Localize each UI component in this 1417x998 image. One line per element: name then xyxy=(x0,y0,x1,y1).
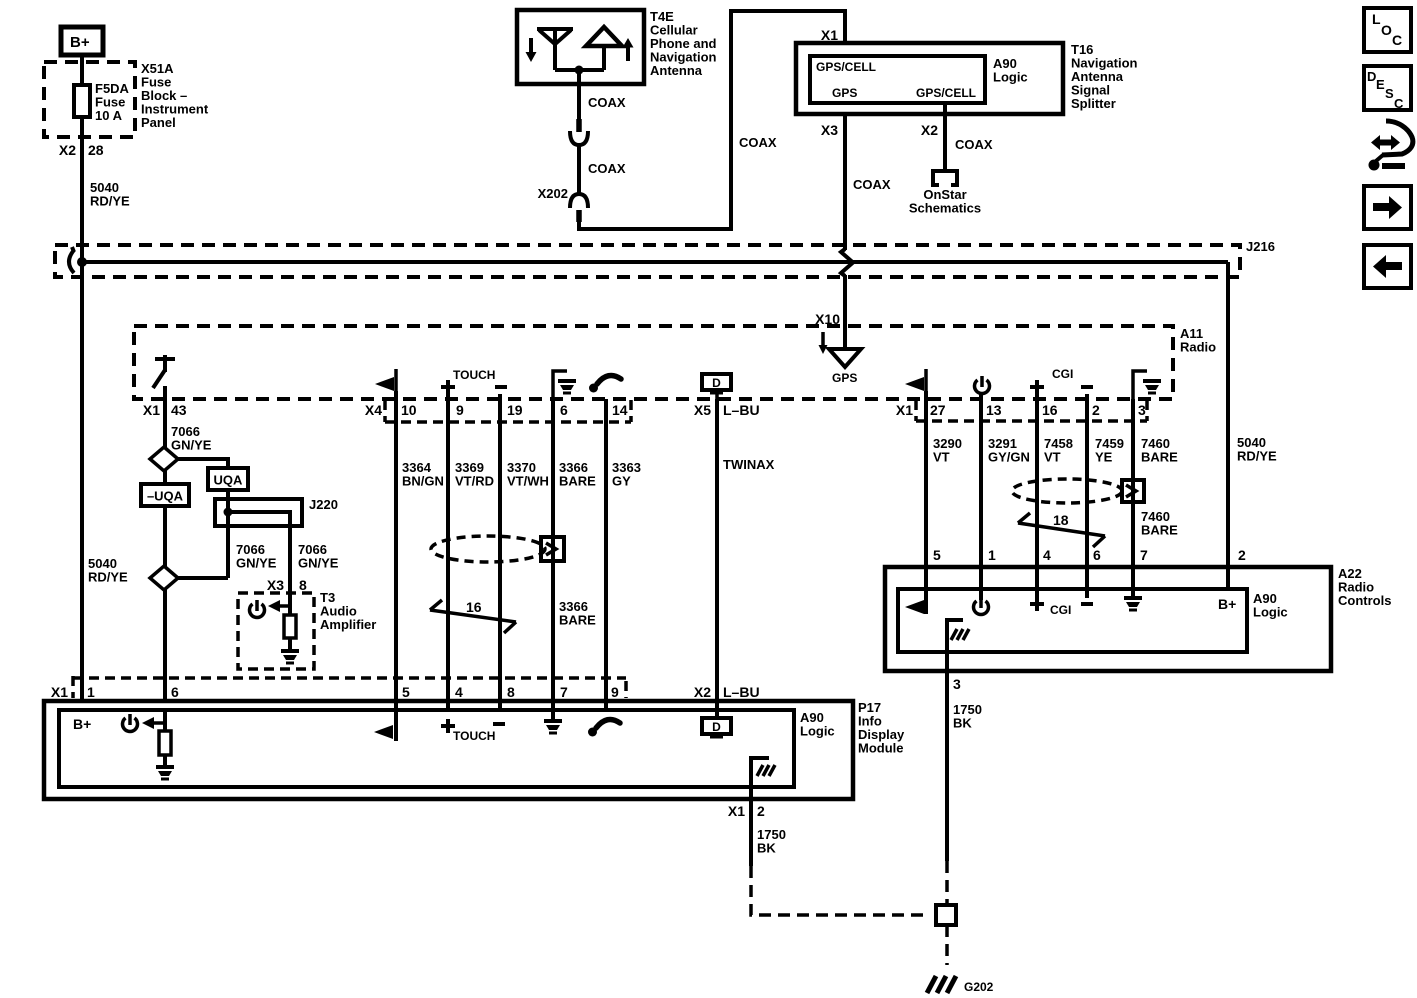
resistor (P17) xyxy=(159,731,171,755)
radio shield ground symbol at pin 6 xyxy=(553,371,576,399)
svg-text:19: 19 xyxy=(507,402,523,418)
CGI + symbol (A22 pin 4) xyxy=(1030,597,1044,611)
wire COAX between connectors xyxy=(577,145,581,194)
svg-text:Radio: Radio xyxy=(1180,340,1216,355)
wire TWINAX X5 to X2 xyxy=(715,399,719,718)
connector half (female) at J216 left end xyxy=(69,250,74,273)
svg-text:UQA: UQA xyxy=(214,473,244,488)
audio-out symbol (A22 pin 5) xyxy=(905,600,924,614)
wire 5040 RD/YE horizontal feed inside J216 xyxy=(82,260,1228,264)
shield ground symbol (P17 pin 7) xyxy=(544,721,562,733)
label T16 Navigation Antenna Signal Splitter xyxy=(1071,42,1138,111)
svg-text:Logic: Logic xyxy=(800,724,835,739)
svg-text:X4: X4 xyxy=(365,402,382,418)
shield ellipse (touch wires) xyxy=(431,536,545,562)
label T4E Cellular Phone and Navigation Antenna xyxy=(650,9,717,78)
antenna common stem and junction xyxy=(555,68,604,72)
label P17 Info Display Module xyxy=(858,700,905,756)
svg-text:GY: GY xyxy=(612,474,631,489)
svg-text:9: 9 xyxy=(456,402,464,418)
pin X5 L-BU labels xyxy=(694,402,760,418)
svg-text:BARE: BARE xyxy=(559,613,596,628)
svg-text:B+: B+ xyxy=(70,34,90,51)
label 1750 BK (P17) xyxy=(757,827,786,856)
svg-text:2: 2 xyxy=(1238,547,1246,563)
wire pin 6 internal (P17) xyxy=(163,710,167,731)
battery B+ symbol xyxy=(61,27,103,55)
connector X1 strip of P17 (dashed) xyxy=(51,676,626,700)
svg-text:D: D xyxy=(712,720,721,734)
radio antenna pin symbol (X1 43) xyxy=(153,355,175,388)
radio A11 dashed box xyxy=(134,326,1173,399)
icon prev-page arrow button xyxy=(1364,245,1411,288)
svg-text:Antenna: Antenna xyxy=(650,63,703,78)
svg-text:YE: YE xyxy=(1095,450,1113,465)
inline connector (male/female pair) xyxy=(570,119,588,145)
svg-text:L–BU: L–BU xyxy=(723,402,760,418)
svg-text:GN/YE: GN/YE xyxy=(298,556,339,571)
svg-text:X1: X1 xyxy=(896,402,913,418)
radio power symbol at pin 13 xyxy=(975,376,990,394)
wire COAX X2 drop xyxy=(943,103,947,169)
svg-text:X1: X1 xyxy=(51,684,68,700)
arrow into power symbol (T3) xyxy=(268,600,291,612)
label 7460 BARE (below shield) xyxy=(1141,509,1178,538)
GPS antenna input arrow (hollow) xyxy=(829,349,861,367)
radio handset symbol at pin 14 xyxy=(589,375,621,392)
label 3363 GY xyxy=(612,460,641,489)
svg-text:O: O xyxy=(1381,22,1392,38)
wire 7066 GN/YE to amplifier xyxy=(288,512,292,615)
label 3290 VT xyxy=(933,436,962,465)
icon next-page arrow button xyxy=(1364,186,1411,229)
svg-text:S: S xyxy=(1385,86,1394,101)
svg-text:VT: VT xyxy=(933,450,950,465)
cellular antenna element xyxy=(537,29,573,70)
wire COAX antenna drop xyxy=(577,70,581,119)
svg-text:18: 18 xyxy=(1053,512,1069,528)
radio touch - symbol at pin 19 xyxy=(495,385,507,389)
wire COAX routing to splitter X1 xyxy=(579,11,845,229)
wire diamond1 to UQA xyxy=(178,459,228,468)
svg-text:L–BU: L–BU xyxy=(723,684,760,700)
wire B+ feed 5040 RD/YE (x=82) xyxy=(80,55,84,701)
svg-text:14: 14 xyxy=(612,402,628,418)
wire 7458 VT (pin16 to pin4) xyxy=(1035,394,1039,611)
power symbol (T3) xyxy=(250,600,265,618)
wire 7460 BARE shield drain (pin3 to pin7) xyxy=(1131,399,1135,597)
svg-text:CGI: CGI xyxy=(1052,367,1073,381)
svg-text:TOUCH: TOUCH xyxy=(453,729,495,743)
svg-text:5: 5 xyxy=(402,684,410,700)
svg-text:GPS: GPS xyxy=(832,371,857,385)
pin X2 L-BU labels (P17) xyxy=(694,684,760,700)
resistor (T3 input) xyxy=(284,615,296,638)
label A90 Logic (P17) xyxy=(800,710,835,739)
svg-text:7: 7 xyxy=(560,684,568,700)
svg-text:6: 6 xyxy=(1093,547,1101,563)
svg-text:16: 16 xyxy=(466,599,482,615)
wire 3369 VT/RD (pin9 to pin4) xyxy=(446,394,450,710)
power symbol (A22 pin 1) xyxy=(974,597,989,615)
wire COAX GPS vertical (x=845) upper part xyxy=(843,114,847,250)
wire 7459 YE (pin2 to pin6) xyxy=(1085,394,1089,598)
wire 3291 GY/GN (pin13 to pin1) xyxy=(979,394,983,600)
svg-text:VT: VT xyxy=(1044,450,1061,465)
svg-text:COAX: COAX xyxy=(739,135,777,150)
svg-text:GPS: GPS xyxy=(832,86,857,100)
svg-text:BARE: BARE xyxy=(1141,450,1178,465)
svg-text:GY/GN: GY/GN xyxy=(988,450,1030,465)
svg-text:6: 6 xyxy=(171,684,179,700)
label 3291 GY/GN xyxy=(988,436,1030,465)
shield ground symbol (A22 pin 7) xyxy=(1124,598,1142,610)
label 5040 RD/YE (right wire) xyxy=(1237,435,1277,464)
CGI - symbol (A22 pin 6) xyxy=(1081,602,1093,606)
chassis ground G202 xyxy=(927,976,956,993)
svg-text:X2: X2 xyxy=(694,684,711,700)
off-page connector to OnStar xyxy=(933,171,957,185)
pin X1 2 labels (P17 bottom) xyxy=(728,803,765,819)
dashed wire 1750 BK from A22 to splice xyxy=(945,861,949,905)
svg-text:Logic: Logic xyxy=(993,70,1028,85)
svg-text:RD/YE: RD/YE xyxy=(90,194,130,209)
touch + symbol (P17 pin 4) xyxy=(441,719,455,733)
splitter T16 inner logic box xyxy=(810,56,985,103)
wire 1750 BK from A22 pin 3 xyxy=(945,652,949,861)
wire 3370 VT/WH (pin19 to pin8) xyxy=(498,394,502,710)
label T3 Audio Amplifier xyxy=(320,590,376,632)
label 7066 GN/YE (left branch) xyxy=(236,542,277,571)
svg-text:COAX: COAX xyxy=(955,137,993,152)
svg-text:8: 8 xyxy=(507,684,515,700)
GPS antenna element xyxy=(586,27,622,70)
touch - symbol (P17 pin 8) xyxy=(493,722,505,726)
label A22 Radio Controls xyxy=(1338,566,1391,608)
svg-text:1: 1 xyxy=(87,684,95,700)
radio shield ground symbol at pin 3 xyxy=(1133,371,1161,399)
label 7459 YE xyxy=(1095,436,1124,465)
ground symbol (T3) xyxy=(281,651,299,663)
svg-text:8: 8 xyxy=(299,577,307,593)
label 5040 RD/YE (mid left wire) xyxy=(88,556,128,585)
svg-text:Amplifier: Amplifier xyxy=(320,617,376,632)
label 3364 BN/GN xyxy=(402,460,444,489)
wire 5040 RD/YE right vertical to A22 (x=1228) xyxy=(1226,262,1230,589)
label 7066 GN/YE (right branch) xyxy=(298,542,339,571)
connector X1 strip (dashed, right) xyxy=(896,400,1147,421)
wire 1750 BK from P17 xyxy=(749,799,753,866)
twisted pair arrow 16 xyxy=(430,599,516,633)
label 3370 VT/WH xyxy=(507,460,549,489)
svg-text:C: C xyxy=(1392,32,1402,48)
splitter T16 outer box xyxy=(796,43,1063,114)
svg-text:TWINAX: TWINAX xyxy=(723,457,775,472)
radio controls A22 inner logic box xyxy=(898,589,1247,652)
display D symbol (P17 X2) xyxy=(702,718,731,737)
wire 7066 GN/YE main (x=165) xyxy=(163,386,167,701)
option diamond 2 xyxy=(150,566,178,590)
option box UQA xyxy=(208,468,248,490)
svg-text:43: 43 xyxy=(171,402,187,418)
label 1750 BK (A22) xyxy=(953,702,982,731)
option box -UQA xyxy=(141,484,189,506)
svg-text:BK: BK xyxy=(757,841,776,856)
radio touch + symbol at pin 9 xyxy=(441,380,455,394)
svg-text:CGI: CGI xyxy=(1050,603,1071,617)
wire resistor to ground (P17) xyxy=(163,755,167,766)
svg-text:GPS/CELL: GPS/CELL xyxy=(916,86,976,100)
svg-text:COAX: COAX xyxy=(588,161,626,176)
handset symbol (P17 pin 9) xyxy=(588,719,620,736)
radio CGI + symbol at pin 16 xyxy=(1030,380,1044,394)
svg-text:J216: J216 xyxy=(1246,239,1275,254)
power symbol (P17) xyxy=(123,714,138,732)
shield ellipse (CGI wires) xyxy=(1012,479,1122,503)
audio-out symbol (P17 pin 5) xyxy=(374,725,393,739)
splice square node xyxy=(936,905,956,925)
inline connector X202 (female/male pair) xyxy=(570,194,588,222)
label 5040 RD/YE (top left wire) xyxy=(90,180,130,209)
svg-text:2: 2 xyxy=(1092,402,1100,418)
radio CGI - symbol at pin 2 xyxy=(1081,385,1093,389)
connector pin pass-through at J216 (chevron) xyxy=(841,249,853,276)
wire 3363 GY (pin14 to pin9) xyxy=(604,399,608,710)
svg-text:X202: X202 xyxy=(538,186,568,201)
svg-text:X10: X10 xyxy=(815,311,840,327)
svg-text:GN/YE: GN/YE xyxy=(171,438,212,453)
svg-text:RD/YE: RD/YE xyxy=(1237,449,1277,464)
wire 3364 BN/GN (pin10 to pin5) xyxy=(394,391,398,741)
svg-text:1: 1 xyxy=(988,547,996,563)
wire 3366 BARE shield drain (pin6 to pin7) xyxy=(551,399,555,719)
svg-text:D: D xyxy=(1367,69,1376,84)
twisted pair arrow 18 xyxy=(1018,512,1105,547)
svg-text:B+: B+ xyxy=(73,716,91,732)
chassis ground hook (P17 internal) xyxy=(751,758,775,799)
svg-text:GN/YE: GN/YE xyxy=(236,556,277,571)
up arrow (GPS) xyxy=(623,38,634,61)
svg-text:J220: J220 xyxy=(309,497,338,512)
info display module P17 inner logic box xyxy=(59,710,794,787)
svg-text:16: 16 xyxy=(1042,402,1058,418)
pin X3 8 labels (amplifier) xyxy=(267,577,307,593)
svg-text:B+: B+ xyxy=(1218,596,1236,612)
svg-text:Controls: Controls xyxy=(1338,593,1391,608)
label 3366 BARE xyxy=(559,460,596,489)
shield drain connector square (right) xyxy=(1122,480,1144,502)
svg-text:9: 9 xyxy=(611,684,619,700)
svg-text:COAX: COAX xyxy=(588,95,626,110)
label A11 Radio xyxy=(1180,326,1216,355)
wire resistor to ground xyxy=(288,638,292,650)
ground symbol (P17) xyxy=(156,767,174,779)
dashed wire splice to G202 xyxy=(945,925,949,965)
svg-text:10: 10 xyxy=(401,402,417,418)
svg-text:28: 28 xyxy=(88,142,104,158)
arrow into power symbol (P17 pin 6) xyxy=(142,717,165,729)
svg-text:X1: X1 xyxy=(143,402,160,418)
wire COAX GPS vertical to radio X10 xyxy=(843,275,847,352)
dashed wire 1750 BK from P17 to splice xyxy=(751,866,930,915)
icon LOC button xyxy=(1364,8,1411,52)
svg-text:GPS/CELL: GPS/CELL xyxy=(816,60,876,74)
svg-text:D: D xyxy=(712,376,721,390)
shield drain connector square xyxy=(541,537,564,561)
svg-text:Module: Module xyxy=(858,741,904,756)
svg-text:Schematics: Schematics xyxy=(909,201,981,216)
svg-text:Splitter: Splitter xyxy=(1071,96,1116,111)
svg-text:Panel: Panel xyxy=(141,115,176,130)
svg-text:VT/RD: VT/RD xyxy=(455,474,494,489)
wire 3290 VT (pin27 to pin5) xyxy=(924,391,928,614)
wire UQA to J220 xyxy=(226,490,230,578)
label 7066 GN/YE (top) xyxy=(171,424,212,453)
svg-text:BARE: BARE xyxy=(559,474,596,489)
svg-text:BN/GN: BN/GN xyxy=(402,474,444,489)
option diamond 1 xyxy=(150,447,178,471)
svg-text:2: 2 xyxy=(757,803,765,819)
label X51A Fuse Block - Instrument Panel xyxy=(141,61,209,130)
label 3366 BARE (below shield) xyxy=(559,599,596,628)
radio controls A22 outer box xyxy=(885,567,1331,671)
label 7460 BARE xyxy=(1141,436,1178,465)
svg-text:–UQA: –UQA xyxy=(147,489,184,504)
harness connector J216 dashed box xyxy=(55,245,1240,277)
svg-text:X1: X1 xyxy=(821,27,838,43)
chassis ground hook (A22 internal) xyxy=(947,620,969,652)
splice pack J220 xyxy=(215,499,302,526)
icon DESC button xyxy=(1364,66,1411,111)
pin X1 43 labels xyxy=(143,402,187,418)
junction node at B+ wire and J216 feed xyxy=(77,257,87,267)
down arrow (cellular receive) xyxy=(526,38,537,62)
svg-text:3: 3 xyxy=(953,676,961,692)
svg-text:13: 13 xyxy=(986,402,1002,418)
svg-text:L: L xyxy=(1372,11,1381,27)
svg-text:E: E xyxy=(1376,77,1385,92)
label A90 Logic (splitter) xyxy=(993,56,1028,85)
fuse F5DA 10A xyxy=(74,85,90,117)
svg-text:4: 4 xyxy=(1043,547,1051,563)
svg-text:4: 4 xyxy=(455,684,463,700)
radio display D symbol at X5 xyxy=(702,374,731,399)
fuse block X51A dashed box xyxy=(44,62,135,137)
svg-text:X3: X3 xyxy=(267,577,284,593)
svg-text:5: 5 xyxy=(933,547,941,563)
svg-text:X1: X1 xyxy=(728,803,745,819)
audio amplifier T3 dashed box xyxy=(238,593,314,669)
svg-text:RD/YE: RD/YE xyxy=(88,570,128,585)
info display module P17 outer box xyxy=(44,701,853,799)
wire diamond2 to J220 branch xyxy=(178,576,228,580)
label F5DA Fuse 10 A xyxy=(95,81,130,123)
icon route arrows xyxy=(1369,121,1413,171)
svg-text:X5: X5 xyxy=(694,402,711,418)
connector X4 strip (dashed) xyxy=(365,400,631,422)
radio audio-out symbol at pin 27 xyxy=(905,369,926,391)
svg-text:X2: X2 xyxy=(921,122,938,138)
label 7458 VT xyxy=(1044,436,1073,465)
pin X2 28 of fuse block xyxy=(59,142,104,158)
svg-text:G202: G202 xyxy=(964,980,994,994)
svg-text:27: 27 xyxy=(930,402,946,418)
svg-text:COAX: COAX xyxy=(853,177,891,192)
antenna T4E box xyxy=(517,10,644,84)
svg-text:3: 3 xyxy=(1138,402,1146,418)
svg-text:Logic: Logic xyxy=(1253,605,1288,620)
svg-text:TOUCH: TOUCH xyxy=(453,368,495,382)
svg-text:6: 6 xyxy=(560,402,568,418)
label OnStar Schematics xyxy=(909,187,981,216)
svg-text:VT/WH: VT/WH xyxy=(507,474,549,489)
label A90 Logic (A22) xyxy=(1253,591,1288,620)
svg-text:10 A: 10 A xyxy=(95,108,123,123)
svg-text:BK: BK xyxy=(953,716,972,731)
svg-text:C: C xyxy=(1394,96,1404,111)
radio audio-out symbol at pin 10 xyxy=(375,369,396,391)
svg-text:BARE: BARE xyxy=(1141,523,1178,538)
svg-text:X2: X2 xyxy=(59,142,76,158)
small down arrow beside GPS input xyxy=(819,332,828,354)
svg-text:X3: X3 xyxy=(821,122,838,138)
label 3369 VT/RD xyxy=(455,460,494,489)
svg-text:7: 7 xyxy=(1140,547,1148,563)
